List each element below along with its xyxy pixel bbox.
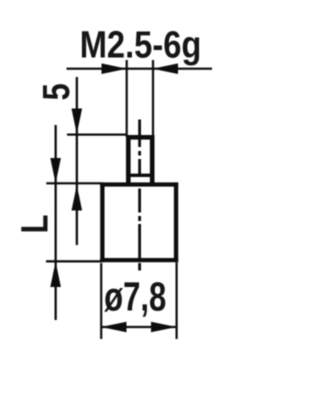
dimension line L xyxy=(55,125,57,320)
extension line diameter left xyxy=(100,263,102,339)
extension line body top (L dim) xyxy=(46,182,101,184)
threaded stud M2.5 xyxy=(126,135,155,186)
body cylinder Ø7.8 xyxy=(100,182,178,262)
center line (dash-dot) xyxy=(138,120,141,271)
extension line body bottom (L dim) xyxy=(46,260,101,262)
extension line thread left xyxy=(126,60,128,137)
svg-text:M2.5-6g: M2.5-6g xyxy=(80,23,202,66)
extension line stud top (5 dim) xyxy=(67,134,126,136)
dimension line M2.5-6g xyxy=(67,68,213,70)
arrowhead up (L dim) xyxy=(50,261,61,287)
extension line thread right xyxy=(152,60,154,137)
svg-text:L: L xyxy=(15,215,57,234)
svg-text:5: 5 xyxy=(36,83,78,100)
extension line diameter right xyxy=(176,263,178,340)
arrowhead left (diameter, points left) xyxy=(101,322,127,333)
dimension line diameter 7.8 xyxy=(101,326,177,328)
svg-text:ø7,8: ø7,8 xyxy=(104,273,166,319)
arrowhead right (diameter, points right) xyxy=(151,322,177,333)
thread runout line xyxy=(128,174,153,177)
dimension line 5 xyxy=(76,77,78,245)
arrowhead up (5 dim) xyxy=(72,185,83,211)
arrowhead down (5 dim) xyxy=(72,109,83,135)
arrowhead left M2.5 (points right) xyxy=(102,63,127,74)
arrowhead right M2.5 (points left) xyxy=(153,63,178,74)
arrowhead down (L dim) xyxy=(50,158,61,183)
